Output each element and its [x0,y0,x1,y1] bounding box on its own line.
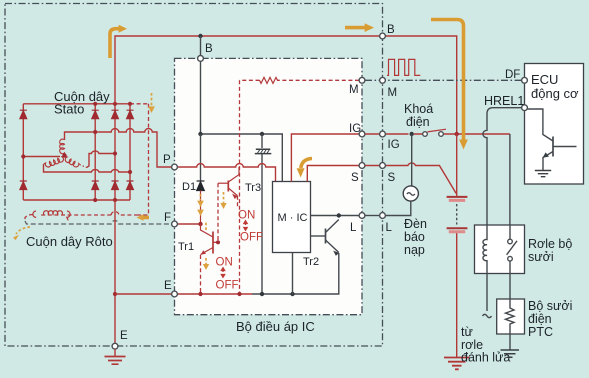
svg-text:Đèn: Đèn [404,217,427,231]
junction B row / capacitor [260,132,264,136]
stator coil phase 3 (to lower right) [65,156,80,167]
wire ground drop rectifier to E (hopped by rotor lines) [114,200,116,294]
transistor ECU [527,109,576,170]
svg-text:M: M [349,84,359,96]
diode rectifier top phase1 [92,110,99,119]
wire E row red part [115,293,252,295]
svg-text:E: E [164,280,172,292]
junction phase3 tap [113,151,117,155]
charge warning lamp [411,134,413,186]
wire top bus dashed tail to field feed [130,103,149,105]
alternator outer boundary [5,4,383,347]
ground symbol PTC [501,350,520,357]
svg-text:M · IC: M · IC [278,212,308,224]
wire battery to ground [456,233,458,357]
wire capacitor line down to E row [261,154,263,294]
orange arrow rotor right (pointing left) [142,216,149,220]
ground symbol battery (red) [444,358,470,370]
wire HREL1 to relay coil (hop over red) [483,108,522,225]
wire S row outer to battery [365,163,456,193]
svg-text:ON: ON [216,257,233,269]
junction bottom bus col2 [93,198,97,202]
wire L row [311,215,360,217]
svg-text:DF: DF [505,69,520,81]
svg-text:OFF: OFF [240,232,263,244]
svg-text:M: M [388,87,398,99]
svg-text:P: P [163,154,171,166]
svg-text:nạp: nạp [404,243,425,257]
svg-text:E: E [120,330,128,342]
diode rectifier bottom phase1 [92,181,99,190]
svg-text:F: F [164,212,171,224]
wire M row to ECU DF (dash-dot) [365,79,521,81]
junction Tr2 collector / L row [337,213,341,217]
wire rectifier top bus [23,103,131,105]
junction Tr1 emitter / E row [198,292,202,296]
wire rotor row dashed (hop over ground drop) [25,215,138,222]
diode rectifier top phase2 [127,110,134,119]
diode rectifier top neutral [20,110,27,119]
battery dashed middle [456,204,458,225]
node E outer + ground [112,343,118,349]
svg-text:IG: IG [388,139,400,151]
battery cell 2 [447,227,468,229]
wire IG drop into M.IC [291,134,359,182]
junction phase2 tap [128,170,132,174]
transistor Tr2 [311,220,340,256]
node IG [359,131,365,137]
wire S drop into M.IC [307,166,359,182]
svg-text:Khoá: Khoá [404,102,433,116]
junction B+ line to B terminal drop [198,34,202,38]
node HREL1 [522,105,528,111]
wire switch to heater relay contact [457,133,510,135]
junction IG row / lamp branch [410,132,414,136]
junction top bus col2 [93,102,97,106]
ignition switch [414,133,457,135]
node L [359,213,365,219]
wire B+ from rectifier to battery [115,36,457,134]
svg-text:Bộ sưởi: Bộ sưởi [528,299,572,313]
svg-text:Tr3: Tr3 [245,182,261,194]
pulse waveform symbol [387,59,420,75]
svg-text:PTC: PTC [528,325,553,339]
node B [198,56,204,62]
svg-text:S: S [351,172,359,184]
stator coil phase 1 (vertical) [60,139,65,155]
node S outer [380,163,386,169]
resistor (zigzag) [260,77,278,83]
svg-text:D1: D1 [182,181,196,193]
node IG outer [380,131,386,137]
junction neutral to diode column [21,154,25,158]
transistor Tr3 [218,167,239,242]
svg-text:L: L [350,222,357,234]
orange arrows beside D1 line [200,194,202,200]
wire P row with hops, into M.IC [178,164,276,182]
wire relay contact to PTC [509,274,511,300]
svg-text:S: S [388,172,396,184]
svg-text:Tr2: Tr2 [303,256,319,268]
wire bias dashed vertical [239,80,241,294]
wire M.IC bottom to E row [292,253,294,295]
svg-text:Bộ điều áp IC: Bộ điều áp IC [236,319,315,334]
wire diode column 3 [114,104,116,200]
heater relay box [475,225,525,274]
wire D1 branch black from B row down [200,134,202,181]
diode rectifier bottom neutral [20,181,27,190]
svg-text:điện: điện [528,312,552,326]
svg-text:từ: từ [461,325,473,339]
junction bottom bus col3 [113,198,117,202]
node L outer [380,213,386,219]
node B outer [380,33,386,39]
node F [172,221,178,227]
junction Tr1 base / Tr3 drive [216,240,220,244]
wire phase2 tap to column4 (hops over col2,col3) [44,164,131,172]
svg-text:OFF: OFF [216,280,239,292]
orange arrow near B node [345,26,365,30]
junction capacitor line / E row [260,292,264,296]
svg-text:sưởi: sưởi [528,250,554,264]
wire D1 to F junction [200,191,202,225]
junction bias line / E row [237,292,241,296]
ground symbol ECU [535,171,551,177]
wire diode column 2 [94,104,96,200]
wire rectifier bottom bus [23,199,130,201]
wire phase1 tap to column2 and P (with hops) [65,129,172,167]
svg-text:động cơ: động cơ [531,86,579,101]
junction M.IC ground / E row [290,292,294,296]
junction B row / D1 branch [198,132,202,136]
node stator neutral junction [62,153,66,157]
stator windings [21,89,171,174]
svg-text:B: B [205,43,213,55]
dotted joint coil3 [80,165,87,168]
junction top bus col3 [113,102,117,106]
wire F row inside box [178,223,201,225]
relay contacts [509,225,511,274]
diode D1 [197,181,205,191]
junction top bus col4 [128,102,132,106]
wire relay coil to ignition relay (break) [486,274,488,312]
orange curl arrow at M.IC top [301,159,312,169]
orange arrows beside Tr1 [205,222,207,230]
node DF [522,77,528,83]
svg-text:HREL1: HREL1 [484,94,524,108]
svg-text:đánh lửa: đánh lửa [461,351,510,365]
junction phase1 tap [93,130,97,134]
orange arrow rotor left [16,227,30,234]
orange arrow field feed top [151,93,153,106]
wire IG row outer [365,133,409,135]
wire field feed dashed vertical [138,104,149,215]
PTC resistor zigzag [506,299,515,334]
diode rectifier bottom phase3 [112,181,119,190]
svg-text:IG: IG [349,123,361,135]
svg-text:B: B [387,24,395,36]
node M outer [380,77,386,83]
stator coil phase 2 (to lower left) [44,156,65,167]
battery cell 1 [447,196,468,198]
svg-text:Cuộn dây Rôto: Cuộn dây Rôto [26,234,113,249]
diode rectifier bottom phase2 [127,181,134,190]
resistor feed dashed from M [277,79,359,81]
relay coil [483,225,487,274]
svg-text:L: L [386,222,393,234]
svg-text:Rơle bộ: Rơle bộ [528,237,572,251]
svg-text:ON: ON [238,210,255,222]
wire diode column 1 (left, neutral) [22,104,24,200]
wire F return dashed gray to F node (hop) [25,221,171,224]
diode rectifier top phase3 [112,110,119,119]
wire phase3 tap to column3 (hop over col2) [87,151,116,167]
junction F node / Tr1 collector [198,222,202,226]
rotor coil with brushes [33,211,36,217]
PTC heater box [497,299,525,334]
rectifier diodes top row [20,110,134,119]
ground symbol E (red) [114,349,116,356]
wire battery drop [456,134,458,196]
wire E row black part up to Tr2 emitter [252,253,339,294]
wire battery line down to relay contact [509,134,511,225]
svg-text:báo: báo [404,230,425,244]
M.IC chip box [273,182,311,253]
junction ground drop / E row [113,292,117,296]
orange arrow top right elbow down to switch [431,20,464,141]
svg-text:Tr1: Tr1 [178,241,194,253]
node S [359,163,365,169]
node E [172,291,178,297]
wire PTC to ground [509,334,511,350]
capacitor to ground (hatched) [261,134,263,148]
voltage regulator IC box (white fill) [175,58,363,314]
wire B node drop (black) [200,36,202,134]
wire neutral to left diode pair [23,156,60,158]
wire B row to M.IC [201,134,283,182]
svg-text:Stato: Stato [54,102,84,117]
junction switch line / battery drop [455,132,459,136]
svg-text:điện: điện [406,115,430,129]
wire diode column 4 [129,104,131,200]
svg-text:ECU: ECU [531,72,558,87]
node P [172,164,178,170]
node M [359,77,365,83]
orange arrow top left elbow [110,29,119,58]
rectifier diodes bottom row [20,181,134,190]
orange arrows overlay [110,20,468,150]
transistor Tr1 [201,224,219,294]
